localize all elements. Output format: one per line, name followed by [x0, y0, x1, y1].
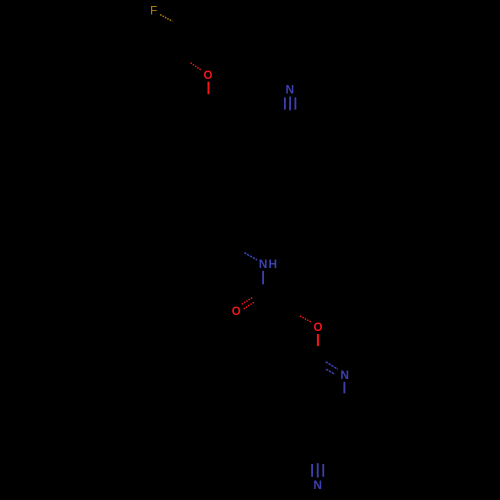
svg-text:F: F	[150, 5, 157, 18]
svg-text:N: N	[286, 82, 295, 96]
svg-text:N: N	[340, 368, 349, 382]
svg-text:O: O	[204, 70, 213, 82]
svg-text:NH: NH	[259, 257, 278, 271]
svg-text:O: O	[314, 322, 323, 334]
svg-text:O: O	[232, 306, 241, 318]
svg-text:N: N	[313, 478, 322, 492]
